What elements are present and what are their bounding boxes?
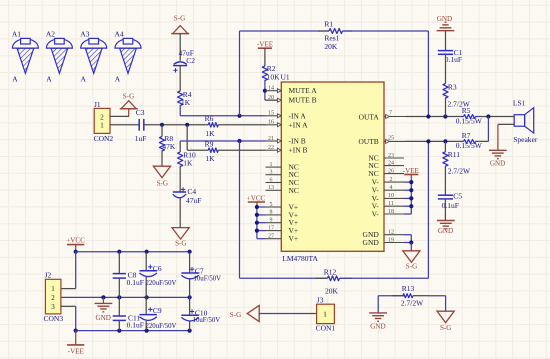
wire GND to C1	[445, 31, 447, 51]
U1 pin 20	[266, 95, 282, 102]
U1 pin 23 (NC)	[384, 153, 404, 159]
svg-text:0.1uF: 0.1uF	[445, 55, 462, 64]
wire node to R8	[161, 125, 163, 137]
svg-text:S-G: S-G	[406, 262, 417, 270]
capacitor C7 10uF/50V	[181, 252, 221, 298]
power port -VEE (at V- pins)	[403, 167, 419, 182]
svg-text:S-G: S-G	[174, 15, 185, 23]
wire R6 to pin 16	[218, 124, 265, 126]
U1 left pin names	[289, 86, 318, 243]
U1 pin 21	[266, 136, 282, 143]
svg-text:C9: C9	[153, 306, 162, 315]
wire V+ bus vertical	[256, 207, 258, 239]
wire R11 to C5	[444, 166, 446, 195]
svg-text:GND: GND	[490, 160, 505, 168]
svg-text:1: 1	[100, 122, 104, 130]
svg-text:1: 1	[323, 310, 327, 319]
power port S-G (top, above C2)	[171, 15, 189, 34]
U1 pin 19 (GND)	[384, 237, 404, 243]
svg-text:1: 1	[270, 162, 273, 168]
junction mid rail C7/C10	[188, 295, 192, 299]
capacitor C4 47uF (polarized)	[173, 187, 202, 205]
resistor R3 2.7/2W	[443, 82, 471, 108]
svg-text:1K: 1K	[205, 129, 215, 138]
svg-text:S-G: S-G	[440, 324, 451, 332]
wire R8 to S-G	[161, 151, 163, 167]
svg-text:R11: R11	[448, 150, 460, 159]
ground GND (above C1)	[437, 15, 455, 31]
junction bottom rail C11	[117, 329, 121, 333]
svg-text:A3: A3	[80, 30, 89, 39]
U1 pin 14	[266, 86, 282, 93]
resistor R9 1K	[205, 140, 219, 164]
svg-text:24: 24	[388, 160, 394, 166]
wire feedback left vertical	[239, 31, 241, 116]
junction V- pin 4	[409, 188, 413, 192]
svg-text:220uF/50V: 220uF/50V	[146, 280, 177, 287]
svg-text:12: 12	[388, 230, 394, 236]
screw A4	[115, 30, 142, 84]
svg-text:CON3: CON3	[44, 314, 64, 323]
junction bottom rail -VEE	[74, 329, 78, 333]
wire to R9	[187, 149, 208, 151]
svg-text:26: 26	[388, 168, 394, 174]
wire C2 to R4	[179, 66, 181, 91]
svg-text:0.1uF: 0.1uF	[127, 278, 144, 287]
U1 pin 12 (GND)	[384, 230, 404, 236]
wire C3 to node (input)	[144, 124, 209, 126]
junction mid rail GND stem	[101, 295, 105, 299]
wire OUTB to R11	[444, 141, 446, 151]
junction at C3/R8	[160, 123, 164, 127]
svg-text:C7: C7	[195, 266, 204, 275]
svg-text:LM4780TA: LM4780TA	[282, 254, 318, 263]
screw A2	[46, 30, 73, 84]
U1 pin 8 (V+)	[257, 210, 281, 216]
junction at R6/R9 branch	[185, 123, 189, 127]
wire -IN A net	[180, 115, 265, 117]
svg-text:22: 22	[268, 145, 274, 151]
junction GND pins	[409, 240, 413, 244]
svg-text:A4: A4	[115, 30, 124, 39]
svg-text:R12: R12	[324, 268, 337, 277]
resistor R13 2.7/2W	[392, 284, 428, 307]
power port S-G (below C4)	[172, 228, 189, 248]
wire S-G to C2	[179, 34, 181, 61]
wire +VCC to J2 pin 1	[75, 252, 77, 289]
wire R12 feedback left vertical	[239, 141, 241, 278]
svg-text:GND: GND	[437, 15, 452, 23]
ground GND (below C5)	[437, 221, 455, 236]
junction OUTB/R12	[426, 139, 430, 143]
wire mid rail (GND) from J2 pin 2	[61, 296, 190, 298]
wire S-G to J3	[259, 313, 305, 315]
wire C4 to S-G	[179, 199, 181, 228]
wire R10 top	[179, 141, 181, 152]
svg-text:V+: V+	[289, 234, 299, 243]
svg-text:OUTB: OUTB	[358, 137, 378, 146]
U1 pin 10 (V-)	[384, 193, 411, 199]
junction V+ pin 5	[255, 205, 259, 209]
power port S-G (at J3)	[230, 306, 259, 322]
junction V+ pin 8	[255, 213, 259, 217]
resistor R4 1K	[178, 90, 192, 107]
capacitor C9 220uF/50V	[140, 297, 177, 330]
wire GND to R13	[378, 295, 405, 297]
wire to S-G below U1	[410, 243, 412, 251]
power port S-G (below U1 GND pins)	[403, 251, 420, 271]
svg-text:47uF: 47uF	[186, 196, 201, 205]
svg-text:J2: J2	[45, 271, 52, 280]
svg-text:2: 2	[390, 177, 393, 183]
junction V+ pin 9	[255, 221, 259, 225]
capacitor C5 0.1uF	[438, 191, 462, 209]
wire V- bus vertical	[410, 182, 412, 214]
power port -VEE (above R2)	[257, 41, 273, 49]
U1 pin 24 (NC)	[384, 160, 404, 166]
svg-text:3: 3	[51, 303, 55, 311]
junction bottom rail C10 corner	[188, 329, 192, 333]
svg-text:1K: 1K	[205, 154, 215, 163]
svg-text:U1: U1	[281, 72, 290, 81]
svg-text:2.7/2W: 2.7/2W	[448, 167, 471, 176]
svg-text:A: A	[12, 74, 18, 83]
screw A1	[12, 30, 39, 84]
U1 pin 11 (V-)	[384, 201, 411, 207]
connector J1 CON2	[94, 100, 114, 143]
power port -VEE (below J2)	[67, 331, 84, 356]
wire R9 to pin 22	[218, 149, 265, 151]
wire R13 to S-G	[428, 295, 446, 297]
power port S-G (below R8)	[153, 166, 170, 187]
ground GND (R13 left)	[369, 313, 387, 331]
svg-text:0.15/5W: 0.15/5W	[456, 141, 483, 150]
U1 pin 18 (V-)	[384, 209, 411, 215]
wire J2 pin 3 to bottom rail	[61, 305, 76, 307]
power port +VCC (above J2)	[66, 237, 85, 252]
svg-text:220uF/50V: 220uF/50V	[146, 323, 177, 330]
svg-text:1K: 1K	[183, 159, 193, 168]
capacitor C2 47uF (polarized)	[173, 49, 195, 73]
U1 pin 3 (NC)	[266, 170, 282, 176]
U1 pin 17 (V+)	[257, 225, 281, 231]
junction V+ pin 17	[255, 229, 259, 233]
svg-text:GND: GND	[370, 322, 385, 330]
op-amp U1 LM4780TA	[281, 72, 385, 263]
wire R5 to speaker node	[478, 116, 514, 118]
capacitor C1 0.1uF	[438, 48, 463, 64]
svg-text:27: 27	[268, 234, 274, 240]
junction top rail C7 corner	[188, 250, 192, 254]
svg-text:+IN A: +IN A	[289, 120, 309, 129]
svg-text:20K: 20K	[324, 42, 338, 51]
wire speaker bottom terminal	[498, 123, 514, 125]
junction V- pin 2	[409, 180, 413, 184]
wire R10 to C4	[179, 166, 181, 192]
svg-text:10K: 10K	[267, 72, 281, 81]
svg-text:R1: R1	[324, 19, 333, 28]
resistor R11 2.7/2W	[443, 150, 471, 176]
svg-text:-IN A: -IN A	[289, 111, 307, 120]
svg-text:23: 23	[388, 153, 394, 159]
ground GND (J2)	[95, 297, 113, 322]
junction top rail C6	[145, 250, 149, 254]
svg-text:0.15/5W: 0.15/5W	[456, 116, 483, 125]
junction R12 feedback / -IN B	[237, 139, 241, 143]
svg-text:GND: GND	[363, 238, 380, 247]
wire top rail (+VCC)	[76, 251, 190, 253]
svg-text:+IN B: +IN B	[289, 146, 308, 155]
svg-text:R7: R7	[462, 131, 471, 140]
junction +VCC rail	[74, 250, 78, 254]
junction top rail C8	[117, 250, 121, 254]
svg-text:J3: J3	[317, 296, 324, 305]
junction OUTA/R1	[426, 114, 430, 118]
U1 pin 1 (NC)	[266, 162, 282, 168]
svg-text:V-: V-	[372, 210, 380, 219]
wire feedback top right	[343, 30, 429, 32]
svg-text:0.1uF: 0.1uF	[442, 201, 459, 210]
svg-text:Speaker: Speaker	[513, 135, 538, 144]
resistor R2 10K	[262, 64, 280, 82]
svg-text:14: 14	[268, 86, 274, 92]
svg-text:1uF: 1uF	[135, 134, 147, 143]
svg-text:13: 13	[268, 185, 274, 191]
svg-text:2: 2	[51, 294, 55, 302]
wire OUTB net	[406, 140, 461, 142]
svg-text:17: 17	[268, 225, 274, 231]
svg-text:0.1uF: 0.1uF	[127, 320, 144, 329]
svg-text:MUTE A: MUTE A	[289, 86, 318, 95]
junction bottom rail C9	[145, 329, 149, 333]
svg-text:2.7/2W: 2.7/2W	[401, 298, 424, 307]
svg-text:CON2: CON2	[94, 134, 114, 143]
svg-text:C5: C5	[453, 191, 462, 200]
svg-text:19: 19	[388, 237, 394, 243]
junction OUTB/R11	[443, 139, 447, 143]
svg-text:11: 11	[388, 201, 394, 207]
svg-text:2: 2	[100, 113, 104, 121]
svg-text:S-G: S-G	[123, 93, 134, 101]
U1 pin 25 (OUTB)	[384, 136, 406, 144]
wire C5 to GND	[444, 199, 446, 221]
svg-text:-VEE: -VEE	[257, 41, 273, 49]
junction speaker node	[486, 114, 490, 118]
screw A3	[80, 30, 107, 84]
svg-text:9: 9	[270, 218, 273, 224]
U1 pin 9 (V+)	[257, 218, 281, 224]
svg-text:-IN B: -IN B	[289, 137, 306, 146]
svg-text:GND: GND	[438, 227, 453, 235]
U1 pin 16	[266, 120, 282, 127]
U1 pin 27 (V+)	[257, 234, 281, 240]
capacitor C6 220uF/50V	[140, 252, 177, 298]
svg-text:A: A	[81, 74, 87, 83]
svg-text:10: 10	[388, 193, 394, 199]
svg-text:OUTA: OUTA	[359, 113, 380, 122]
speaker LS1	[513, 99, 538, 144]
svg-text:S-G: S-G	[157, 179, 168, 187]
power port S-G (at J1 pin 2)	[120, 93, 138, 117]
wire R12 feedback bottom right	[340, 277, 429, 279]
svg-text:5: 5	[270, 202, 273, 208]
capacitor C10 10uF/50V	[181, 297, 220, 330]
resistor R10 1K	[178, 151, 196, 168]
wire -IN B net	[180, 140, 265, 142]
junction at pin 14	[263, 89, 267, 93]
svg-text:18: 18	[388, 209, 394, 215]
wire R12 feedback right vertical to OUTB	[427, 141, 429, 278]
connector J2 CON3	[44, 271, 64, 323]
U1 pin 26 (NC)	[384, 168, 404, 174]
svg-text:1K: 1K	[181, 98, 191, 107]
power port +VCC (at V+ pins)	[247, 195, 266, 208]
wire OUTA net	[406, 116, 461, 118]
svg-text:C6: C6	[153, 264, 162, 273]
junction mid rail C6/C9	[145, 295, 149, 299]
wire R3 to OUTA	[445, 98, 447, 117]
U1 pin 6 (NC)	[266, 177, 282, 183]
wire J1 pin 1 to C3	[110, 124, 139, 126]
connector J3 CON1	[316, 296, 336, 333]
svg-text:+VCC: +VCC	[66, 237, 85, 245]
svg-text:10uF/50V: 10uF/50V	[194, 275, 222, 282]
svg-text:R13: R13	[402, 284, 415, 293]
wire pin 12 to pin 19	[404, 234, 411, 236]
svg-text:CON1: CON1	[316, 324, 336, 333]
power port S-G (R13 right)	[437, 311, 454, 332]
svg-text:S-G: S-G	[230, 311, 241, 319]
svg-text:LS1: LS1	[513, 99, 526, 108]
svg-text:C2: C2	[186, 56, 195, 65]
capacitor C11 0.1uF	[113, 297, 144, 330]
svg-text:6: 6	[270, 177, 273, 183]
resistor R8 47K	[159, 134, 176, 151]
svg-text:A: A	[115, 74, 121, 83]
svg-text:J1: J1	[94, 100, 101, 109]
junction R1 feedback / -IN A	[237, 114, 241, 118]
svg-text:S-G: S-G	[175, 239, 186, 247]
wire into pin 20	[265, 99, 281, 101]
U1 pin 7 (OUTA)	[384, 111, 406, 119]
svg-text:47K: 47K	[162, 142, 176, 151]
svg-text:C3: C3	[136, 108, 145, 117]
wire R12 feedback bottom left	[240, 277, 328, 279]
svg-text:R3: R3	[448, 82, 457, 91]
wire J1 pin 2	[110, 115, 129, 117]
resistor R5 0.15/5W	[456, 106, 483, 125]
junction V- pin 10	[409, 196, 413, 200]
capacitor C3 1uF	[135, 108, 147, 143]
svg-text:20: 20	[268, 95, 274, 101]
junction V- pin 11	[409, 204, 413, 208]
svg-text:A2: A2	[46, 30, 55, 39]
svg-text:10uF/50V: 10uF/50V	[193, 317, 221, 324]
U1 pin 13 (NC)	[266, 185, 282, 191]
resistor R1 Res1 20K	[318, 19, 352, 51]
svg-text:16: 16	[268, 120, 274, 126]
U1 pin 4 (V-)	[384, 185, 411, 191]
U1 pin 15	[266, 111, 282, 118]
svg-text:2.7/2W: 2.7/2W	[448, 99, 471, 108]
wire bottom rail (-VEE)	[76, 330, 190, 332]
svg-text:A: A	[46, 74, 52, 83]
resistor R12 20K	[316, 268, 353, 296]
svg-text:NC: NC	[289, 186, 299, 195]
junction OUTA/R3	[443, 114, 447, 118]
svg-text:GND: GND	[96, 314, 111, 322]
resistor R7 0.15/5W	[456, 131, 483, 150]
U1 right pin names	[358, 113, 379, 248]
wire C1 to R3	[445, 54, 447, 83]
wire R2 to pin 14 / pin 20	[264, 80, 266, 100]
svg-text:15: 15	[268, 111, 274, 117]
svg-text:1: 1	[51, 285, 55, 293]
svg-text:21: 21	[268, 136, 274, 142]
wire feedback right vertical to OUTA	[427, 31, 429, 117]
svg-text:20K: 20K	[325, 287, 339, 296]
svg-text:MUTE B: MUTE B	[289, 96, 317, 105]
wire speaker to GND	[497, 124, 499, 150]
svg-text:C4: C4	[187, 187, 196, 196]
ground GND (speaker)	[489, 150, 507, 167]
resistor R6 1K	[205, 114, 219, 138]
svg-text:8: 8	[270, 210, 273, 216]
svg-text:7: 7	[389, 111, 392, 117]
svg-text:-VEE: -VEE	[68, 348, 84, 356]
wire R4 to -IN A net	[179, 105, 181, 116]
wire -VEE to R2	[264, 48, 266, 66]
svg-text:A1: A1	[12, 30, 21, 39]
U1 pin 5 (V+)	[257, 202, 281, 208]
U1 pin 2 (V-)	[384, 177, 411, 183]
wire R7 to speaker node vertical	[478, 140, 488, 142]
svg-text:3: 3	[270, 170, 273, 176]
wire branch down to R9	[186, 125, 188, 150]
wire feedback top left	[240, 30, 330, 32]
svg-text:25: 25	[388, 136, 394, 142]
junction mid rail C8/C11	[117, 295, 121, 299]
capacitor C8 0.1uF	[113, 252, 144, 298]
svg-text:4: 4	[390, 185, 393, 191]
U1 pin 22	[266, 145, 282, 152]
